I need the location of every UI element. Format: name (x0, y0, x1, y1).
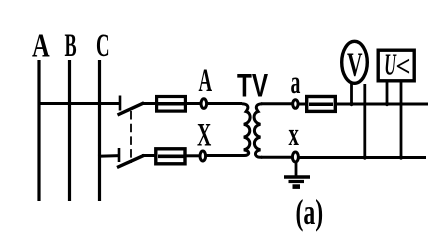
terminal X (200, 151, 206, 161)
wire terminal a to fuse FU3 (299, 103, 306, 106)
fuse FU1 body (157, 97, 186, 112)
svg-text:C: C (96, 27, 110, 64)
ground bar 2 (289, 180, 305, 183)
svg-text:(a): (a) (296, 192, 324, 232)
junction relay right lead on neutral wire (399, 155, 403, 159)
relay KV body (378, 50, 414, 81)
ground stem (295, 162, 298, 177)
busbar C (98, 60, 101, 201)
disconnector QS bottom blade (117, 155, 144, 167)
relay KV right lead (400, 80, 403, 158)
relay KV left lead (386, 80, 389, 105)
transformer TV primary winding (242, 104, 250, 156)
svg-text:x: x (289, 115, 300, 152)
wire terminal A to transformer primary (208, 102, 243, 105)
svg-text:B: B (65, 26, 77, 63)
svg-text:X: X (197, 116, 212, 152)
fuse FU3 element line (309, 102, 333, 106)
junction relay left lead on phase wire (385, 102, 389, 106)
wire transformer secondary to terminal x (261, 156, 292, 159)
junction voltmeter right lead on neutral wire (363, 155, 367, 159)
wire from busbar C to bottom disconnector (98, 154, 119, 158)
svg-text:TV: TV (237, 68, 268, 104)
svg-text:a: a (291, 64, 301, 100)
ground bar 3 (293, 184, 301, 189)
terminal x (292, 152, 298, 162)
disconnector QS bottom fixed contact (118, 148, 121, 162)
svg-text:A: A (32, 28, 50, 65)
wire blade to fuse FU1 (142, 102, 156, 105)
wire fuse FU1 to terminal A (187, 102, 200, 105)
fuse FU3 body (307, 97, 336, 112)
junction voltmeter left lead on phase wire (349, 102, 353, 106)
secondary phase wire (337, 103, 428, 106)
svg-text:<: < (396, 51, 411, 84)
secondary neutral wire (300, 156, 427, 159)
disconnector QS top fixed contact (119, 96, 122, 111)
disconnector QS top blade (118, 103, 145, 115)
wire terminal X to transformer primary (207, 154, 243, 157)
voltmeter PV left lead (350, 84, 353, 105)
terminal A (201, 99, 207, 109)
transformer TV secondary winding (254, 104, 262, 157)
voltmeter PV right lead (363, 84, 366, 158)
disconnector linkage dashed line (130, 111, 132, 163)
wire from busbar A to top disconnector (38, 102, 121, 105)
fuse FU2 body (156, 149, 185, 164)
ground bar 1 (284, 175, 310, 178)
svg-text:V: V (347, 47, 363, 84)
svg-text:A: A (199, 62, 213, 99)
fuse FU2 element line (158, 155, 184, 159)
busbar B (68, 60, 71, 201)
terminal a (293, 100, 298, 109)
wire blade to fuse FU2 (142, 154, 155, 157)
busbar A (37, 60, 40, 201)
voltmeter PV body (342, 41, 368, 83)
wire transformer secondary to terminal a (261, 102, 292, 105)
wire fuse FU2 to terminal X (186, 154, 199, 157)
fuse FU1 element line (158, 102, 185, 106)
